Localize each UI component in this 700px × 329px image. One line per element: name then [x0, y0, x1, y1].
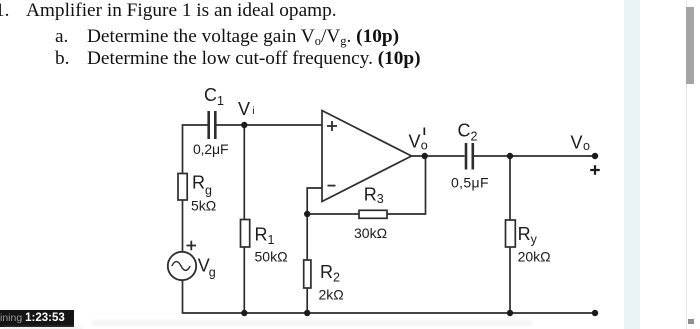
wire: Vg bottom to bottom rail corner — [183, 280, 596, 313]
svg-text:Rg: Rg — [192, 173, 212, 198]
svg-text:o: o — [583, 139, 590, 153]
svg-text:50kΩ: 50kΩ — [255, 249, 288, 265]
wire: R1 bottom to bottom rail — [243, 247, 245, 313]
svg-text:2kΩ: 2kΩ — [319, 287, 344, 303]
wire: C2 right plate to Vo terminal — [474, 155, 596, 157]
video timestamp bar — [0, 310, 74, 327]
bottom faint blur remnants — [92, 321, 532, 325]
node bottom rail Ry — [507, 310, 513, 316]
wire: R3 right up to output node — [387, 156, 426, 214]
svg-text:V: V — [238, 99, 250, 119]
wire: C2 output node down to Ry top — [509, 156, 511, 220]
svg-text:Ry: Ry — [518, 224, 538, 247]
resistor Ry — [506, 220, 516, 247]
wire: Rg bottom to Vg top — [182, 200, 184, 252]
svg-text:R3: R3 — [364, 185, 384, 207]
wire: C1 right plate to op-amp + input through node Vi — [216, 124, 322, 126]
svg-text:R2: R2 — [320, 262, 340, 285]
svg-text:0,2μF: 0,2μF — [193, 141, 229, 157]
node Vo' (op-amp output) — [422, 153, 428, 159]
resistor R2 — [304, 260, 311, 288]
node bottom right terminal — [592, 310, 598, 316]
heading line 1 — [0, 0, 9, 22]
scrollbar track line — [686, 0, 687, 329]
capacitor C2 — [466, 143, 473, 170]
scrollbar bottom arrow — [688, 319, 694, 324]
svg-text:20kΩ: 20kΩ — [518, 249, 551, 265]
svg-text:R1: R1 — [255, 225, 275, 248]
wire: feedback node to R3 left — [307, 213, 359, 215]
svg-text:Vg: Vg — [198, 256, 216, 280]
scrollbar thumb — [686, 7, 694, 84]
svg-text:o: o — [421, 139, 428, 153]
wire: top rail left segment to C1 — [183, 125, 209, 174]
wire: node Vi down to R1 top — [243, 125, 245, 220]
svg-text:C2: C2 — [458, 121, 478, 144]
svg-text:V: V — [409, 132, 421, 152]
wire: inverting input stub — [307, 188, 322, 214]
node bottom rail R2 — [304, 310, 310, 316]
svg-text:30kΩ: 30kΩ — [354, 225, 387, 241]
capacitor C1 — [209, 111, 216, 139]
blue side strip — [624, 0, 640, 329]
svg-text:5kΩ: 5kΩ — [191, 198, 216, 214]
resistor Rg — [178, 174, 187, 201]
node Vo terminal — [592, 153, 598, 159]
svg-text:V: V — [571, 133, 583, 153]
source Vg — [168, 241, 196, 281]
resistor R3 — [359, 210, 387, 218]
node bottom rail R1 — [241, 310, 247, 316]
wire: feedback node down to R2 top — [306, 214, 308, 260]
node Vi — [241, 122, 247, 128]
wire: Ry bottom to bottom rail — [509, 247, 511, 313]
wire: op-amp output to C2 left plate — [412, 155, 465, 157]
heading line b — [55, 48, 69, 70]
resistor R1 — [241, 220, 250, 248]
node after C2 — [507, 153, 513, 159]
node feedback junction — [304, 211, 310, 217]
heading line a — [55, 26, 68, 48]
svg-text:0,5μF: 0,5μF — [451, 175, 489, 191]
polarity + at Vo terminal — [590, 165, 600, 175]
svg-text:i: i — [252, 105, 254, 117]
wire: R2 bottom to bottom rail — [306, 288, 308, 313]
op-amp U1 — [322, 111, 412, 202]
svg-text:C1: C1 — [204, 85, 224, 108]
